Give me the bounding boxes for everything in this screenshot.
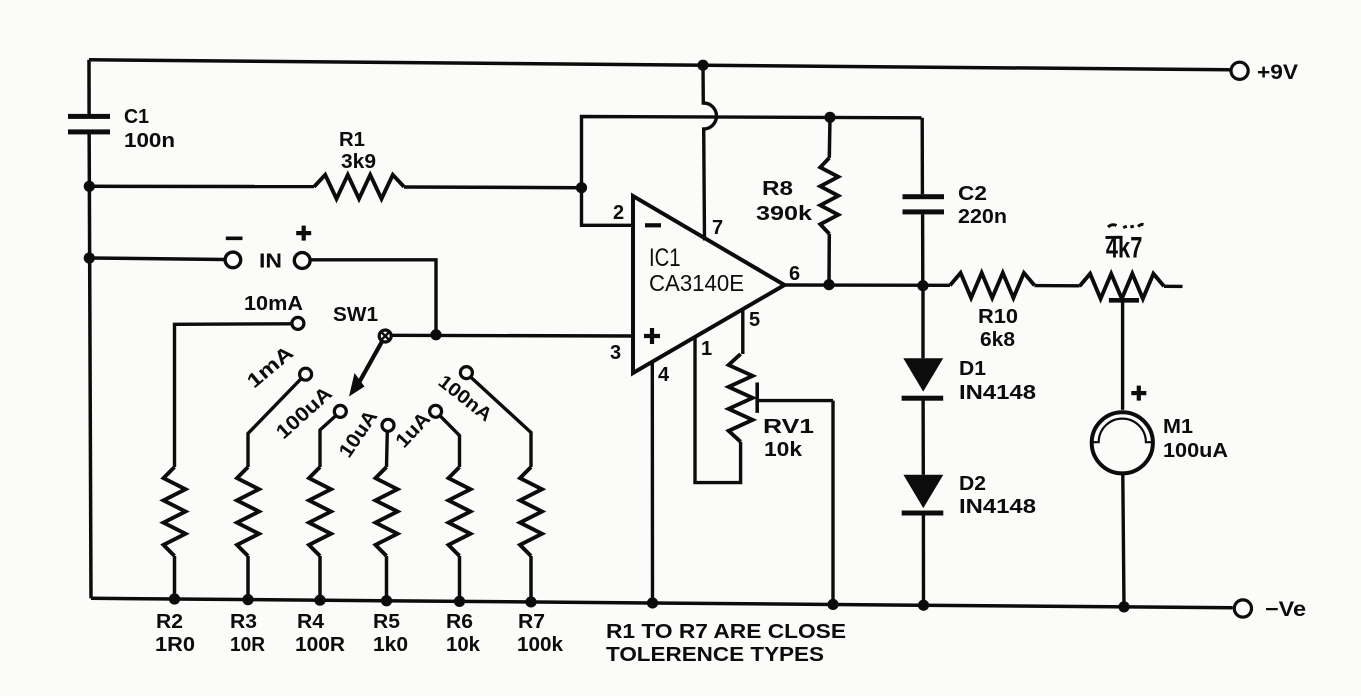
diode D2 — [902, 473, 1036, 518]
capacitor C1 — [68, 106, 175, 152]
wire pin 4 to bottom rail — [651, 362, 655, 603]
svg-text:R3: R3 — [230, 611, 257, 633]
svg-text:C2: C2 — [958, 183, 987, 205]
wire 1mA contact to R3 — [248, 379, 301, 467]
meter M1 — [1092, 386, 1228, 474]
wire 10mA contact to R2 — [175, 324, 292, 467]
resistor R10 — [950, 273, 1035, 351]
wire feedback top line — [582, 117, 922, 188]
svg-text:1: 1 — [701, 338, 712, 360]
node R8 top junction — [824, 112, 835, 123]
svg-text:4: 4 — [658, 364, 670, 386]
terminal -Ve — [1234, 598, 1306, 621]
wire left vertical rail upper — [87, 60, 91, 116]
wire output junction to D1 — [921, 286, 924, 359]
node junction R1 / pin2 / feedback — [576, 182, 587, 193]
svg-text:6k8: 6k8 — [980, 329, 1015, 351]
wire pin 7 from +9V rail (with hop) — [703, 65, 716, 240]
node R8 bottom junction — [823, 279, 834, 290]
switch contact 10uA — [335, 406, 394, 461]
svg-text:RV1: RV1 — [763, 416, 814, 438]
wire top +9V rail — [89, 60, 1230, 70]
svg-text:100uA: 100uA — [1163, 440, 1228, 462]
wire op-amp output — [785, 283, 951, 287]
resistor R1 — [89, 129, 581, 199]
wire 100uA contact to R4 — [320, 416, 336, 467]
node junction left rail / R1 — [84, 181, 95, 192]
wire 100nA contact to R7 — [471, 377, 531, 467]
wire D2 to bottom rail — [922, 513, 925, 605]
svg-text:10R: 10R — [230, 634, 266, 656]
terminal +9V — [1231, 61, 1298, 84]
svg-text:CA3140E: CA3140E — [649, 270, 744, 296]
svg-text:R10: R10 — [978, 306, 1018, 328]
svg-text:R2: R2 — [156, 611, 183, 633]
wire D1 to D2 — [921, 398, 925, 475]
node junction left rail / IN — [84, 252, 95, 263]
svg-text:220n: 220n — [958, 206, 1007, 228]
node M1 / bottom rail — [1118, 601, 1129, 612]
terminal IN minus — [225, 238, 242, 267]
svg-text:100k: 100k — [517, 634, 564, 656]
node junction IN+ / switch line — [430, 329, 441, 340]
svg-text:−Ve: −Ve — [1265, 598, 1306, 621]
svg-text:1k0: 1k0 — [373, 634, 408, 656]
svg-text:R1: R1 — [339, 129, 365, 151]
svg-text:SW1: SW1 — [333, 304, 378, 326]
switch contact 1mA — [243, 342, 312, 393]
svg-text:100n: 100n — [124, 130, 175, 152]
svg-text:R1 TO R7 ARE CLOSE: R1 TO R7 ARE CLOSE — [606, 621, 846, 643]
wire IN- lead — [89, 258, 224, 260]
svg-text:3: 3 — [610, 342, 621, 364]
resistor R2 — [155, 467, 195, 656]
resistor R5 — [373, 467, 408, 656]
svg-text:R8: R8 — [762, 178, 793, 200]
svg-text:3k9: 3k9 — [341, 151, 376, 173]
node R4 / bottom rail — [314, 595, 325, 606]
svg-text:6: 6 — [789, 263, 800, 285]
switch SW1 pole and arrow — [333, 304, 391, 397]
switch contact 10mA — [244, 293, 304, 329]
capacitor C2 — [903, 118, 1008, 286]
svg-text:IN4148: IN4148 — [959, 496, 1036, 518]
svg-text:IN: IN — [259, 251, 282, 273]
node R2 / bottom rail — [169, 593, 180, 604]
svg-text:7: 7 — [712, 217, 723, 239]
potentiometer RV1 — [729, 354, 833, 604]
svg-text:10k: 10k — [764, 439, 803, 461]
svg-text:D2: D2 — [959, 473, 986, 495]
resistor R6 — [446, 467, 481, 656]
wire switch pole to pin 3 — [391, 334, 634, 338]
wire 1uA contact to R6 — [440, 416, 460, 467]
svg-text:+9V: +9V — [1257, 61, 1298, 84]
switch contact 100nA — [434, 367, 496, 427]
wire bottom -Ve rail — [91, 598, 1233, 608]
node C2 / output junction — [917, 280, 928, 291]
svg-text:D1: D1 — [959, 358, 986, 380]
svg-text:R5: R5 — [373, 611, 400, 633]
wire pin 5 to RV1 — [741, 310, 744, 355]
svg-text:M1: M1 — [1163, 416, 1193, 438]
svg-text:TOLERENCE TYPES: TOLERENCE TYPES — [606, 644, 824, 666]
wire left vertical rail lower — [89, 132, 91, 598]
node pin 4 / bottom rail — [647, 597, 658, 608]
svg-text:IN4148: IN4148 — [959, 382, 1036, 404]
node R5 / bottom rail — [381, 595, 392, 606]
wire pin 1 to RV1 bottom — [695, 338, 741, 483]
note close tolerance — [606, 621, 846, 666]
svg-text:IC1: IC1 — [649, 244, 681, 272]
node R7 / bottom rail — [525, 596, 536, 607]
node RV1 wiper / bottom rail — [827, 599, 838, 610]
diode D1 — [902, 358, 1036, 404]
wire pin 2 feedback — [582, 188, 634, 226]
svg-text:2: 2 — [613, 202, 624, 224]
resistor R7 — [517, 467, 564, 656]
node R3 / bottom rail — [242, 594, 253, 605]
wire R10 to pot — [1035, 284, 1080, 288]
svg-text:1R0: 1R0 — [155, 634, 195, 656]
potentiometer 4k7 — [1080, 224, 1183, 409]
node D2 / bottom rail — [918, 600, 929, 611]
svg-text:5: 5 — [749, 309, 760, 331]
svg-text:390k: 390k — [756, 203, 813, 225]
switch contact 100uA — [272, 383, 346, 444]
resistor R3 — [230, 467, 266, 656]
wire 10uA contact to R5 — [385, 432, 389, 468]
svg-text:R7: R7 — [518, 611, 545, 633]
svg-text:R6: R6 — [446, 611, 473, 633]
svg-text:R4: R4 — [297, 611, 325, 633]
node R6 / bottom rail — [454, 596, 465, 607]
resistor R4 — [295, 467, 346, 656]
switch contact 1uA — [392, 405, 442, 452]
svg-text:10mA: 10mA — [244, 293, 303, 315]
wire M1 to bottom rail — [1123, 475, 1124, 607]
svg-text:10k: 10k — [446, 634, 481, 656]
svg-text:100R: 100R — [295, 634, 346, 656]
op-amp IC1 CA3140E — [633, 196, 785, 373]
svg-text:C1: C1 — [124, 106, 149, 128]
resistor R8 — [756, 117, 838, 284]
node top-rail junction to pin 7 — [697, 60, 708, 71]
wire IN+ to switch node — [310, 260, 436, 335]
terminal IN plus — [294, 226, 311, 269]
